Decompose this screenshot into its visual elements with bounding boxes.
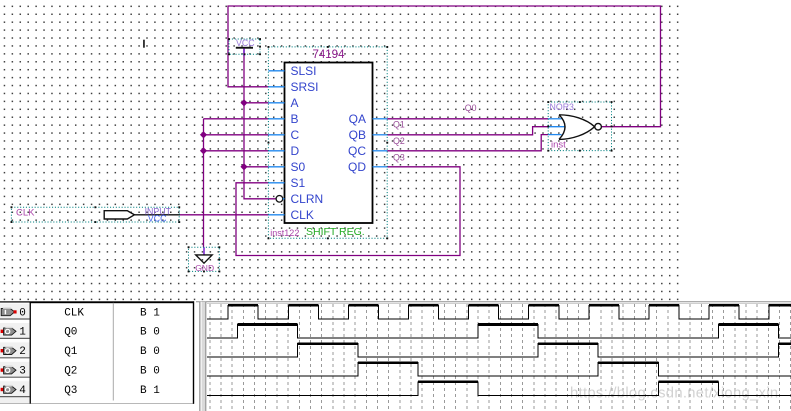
text cursor (143, 40, 145, 48)
svg-text:1: 1 (19, 327, 26, 339)
time gridlines (210, 304, 791, 411)
svg-text:S1: S1 (291, 176, 306, 190)
svg-text:74194: 74194 (313, 49, 346, 61)
wave row button 2 (0, 341, 30, 358)
svg-text:SHIFT REG.: SHIFT REG. (306, 226, 365, 238)
svg-text:Q3: Q3 (64, 385, 77, 397)
svg-text:https://blog.csdn.net/xiong_xi: https://blog.csdn.net/xiong_xin (570, 386, 778, 402)
junction at S0 pin (240, 163, 247, 170)
power VCC (228, 38, 261, 56)
svg-text:A: A (291, 96, 299, 110)
waveform trace Q2 (207, 363, 791, 377)
svg-text:Q0: Q0 (64, 327, 77, 339)
panel borders (30, 302, 31, 404)
waveform trace Q1 (207, 344, 791, 358)
svg-text:S0: S0 (291, 160, 306, 174)
svg-text:QB: QB (349, 128, 366, 142)
wave row button 3 (0, 361, 30, 378)
wire: B branch (204, 118, 269, 120)
svg-text:B 0: B 0 (140, 346, 160, 358)
svg-text:Q0: Q0 (465, 103, 477, 113)
wire: C branch (204, 134, 269, 136)
wire: branch to S0 pin (244, 166, 268, 168)
waveform trace Q3 (207, 382, 791, 396)
svg-text:0: 0 (19, 307, 26, 319)
svg-text:B 0: B 0 (140, 327, 160, 339)
waveform trace Q0 (207, 325, 791, 339)
svg-text:Q2: Q2 (64, 366, 77, 378)
svg-text:SLSI: SLSI (291, 64, 317, 78)
junction at D pin (200, 147, 207, 154)
svg-text:QC: QC (348, 144, 366, 158)
svg-text:B 1: B 1 (140, 385, 160, 397)
wire: branch to A pin (244, 102, 268, 104)
svg-text:CLRN: CLRN (291, 192, 324, 206)
svg-text:CLK: CLK (16, 208, 35, 219)
svg-text:3: 3 (19, 366, 26, 378)
wire: QB to NOR input 2 (387, 127, 548, 135)
svg-text:Q1: Q1 (64, 346, 78, 358)
ground GND (188, 246, 221, 272)
svg-text:B: B (291, 112, 299, 126)
splitter bar (199, 302, 206, 411)
junction at C pin (200, 131, 207, 138)
svg-text:Q1: Q1 (393, 120, 405, 130)
IC 74194 (inst122 SHIFT REG.) (268, 46, 389, 239)
svg-text:NOR3: NOR3 (550, 102, 575, 112)
svg-text:inst122: inst122 (270, 228, 299, 238)
wire: QD to S1 feedback (236, 167, 460, 256)
svg-text:CLK: CLK (291, 208, 314, 222)
svg-text:QD: QD (348, 160, 366, 174)
input pin CLK (11, 206, 181, 223)
wave row button 4 (0, 380, 30, 397)
gate NOR3 (inst) (547, 101, 612, 151)
junction at A pin (240, 99, 247, 106)
svg-text:QA: QA (349, 112, 366, 126)
svg-text:C: C (291, 128, 300, 142)
svg-text:2: 2 (19, 346, 26, 358)
svg-text:B 1: B 1 (140, 307, 160, 319)
wire: QA to NOR input 1 (387, 118, 548, 120)
wire: QC to NOR input 3 (387, 135, 548, 151)
wave row button 0 (0, 303, 30, 320)
wire: CLK input to CLK pin (180, 214, 268, 216)
svg-text:VCC: VCC (236, 38, 255, 48)
svg-text:B 0: B 0 (140, 366, 160, 378)
wave row button 1 (0, 322, 30, 339)
wire: VCC vertical to CLRN (244, 49, 276, 199)
svg-text:CLK: CLK (64, 307, 84, 319)
wire: B/C/D to GND vertical (203, 119, 205, 247)
waveform panel (0, 301, 791, 411)
waveform trace CLK (207, 305, 791, 319)
svg-text:SRSI: SRSI (291, 80, 319, 94)
svg-text:D: D (291, 144, 300, 158)
wire: NOR output feedback loop to SRSI (228, 6, 661, 127)
svg-text:inst: inst (551, 140, 566, 151)
svg-text:4: 4 (19, 385, 26, 397)
svg-text:Q3: Q3 (393, 153, 405, 163)
wire: D branch (204, 150, 269, 152)
svg-text:Q2: Q2 (393, 136, 405, 146)
